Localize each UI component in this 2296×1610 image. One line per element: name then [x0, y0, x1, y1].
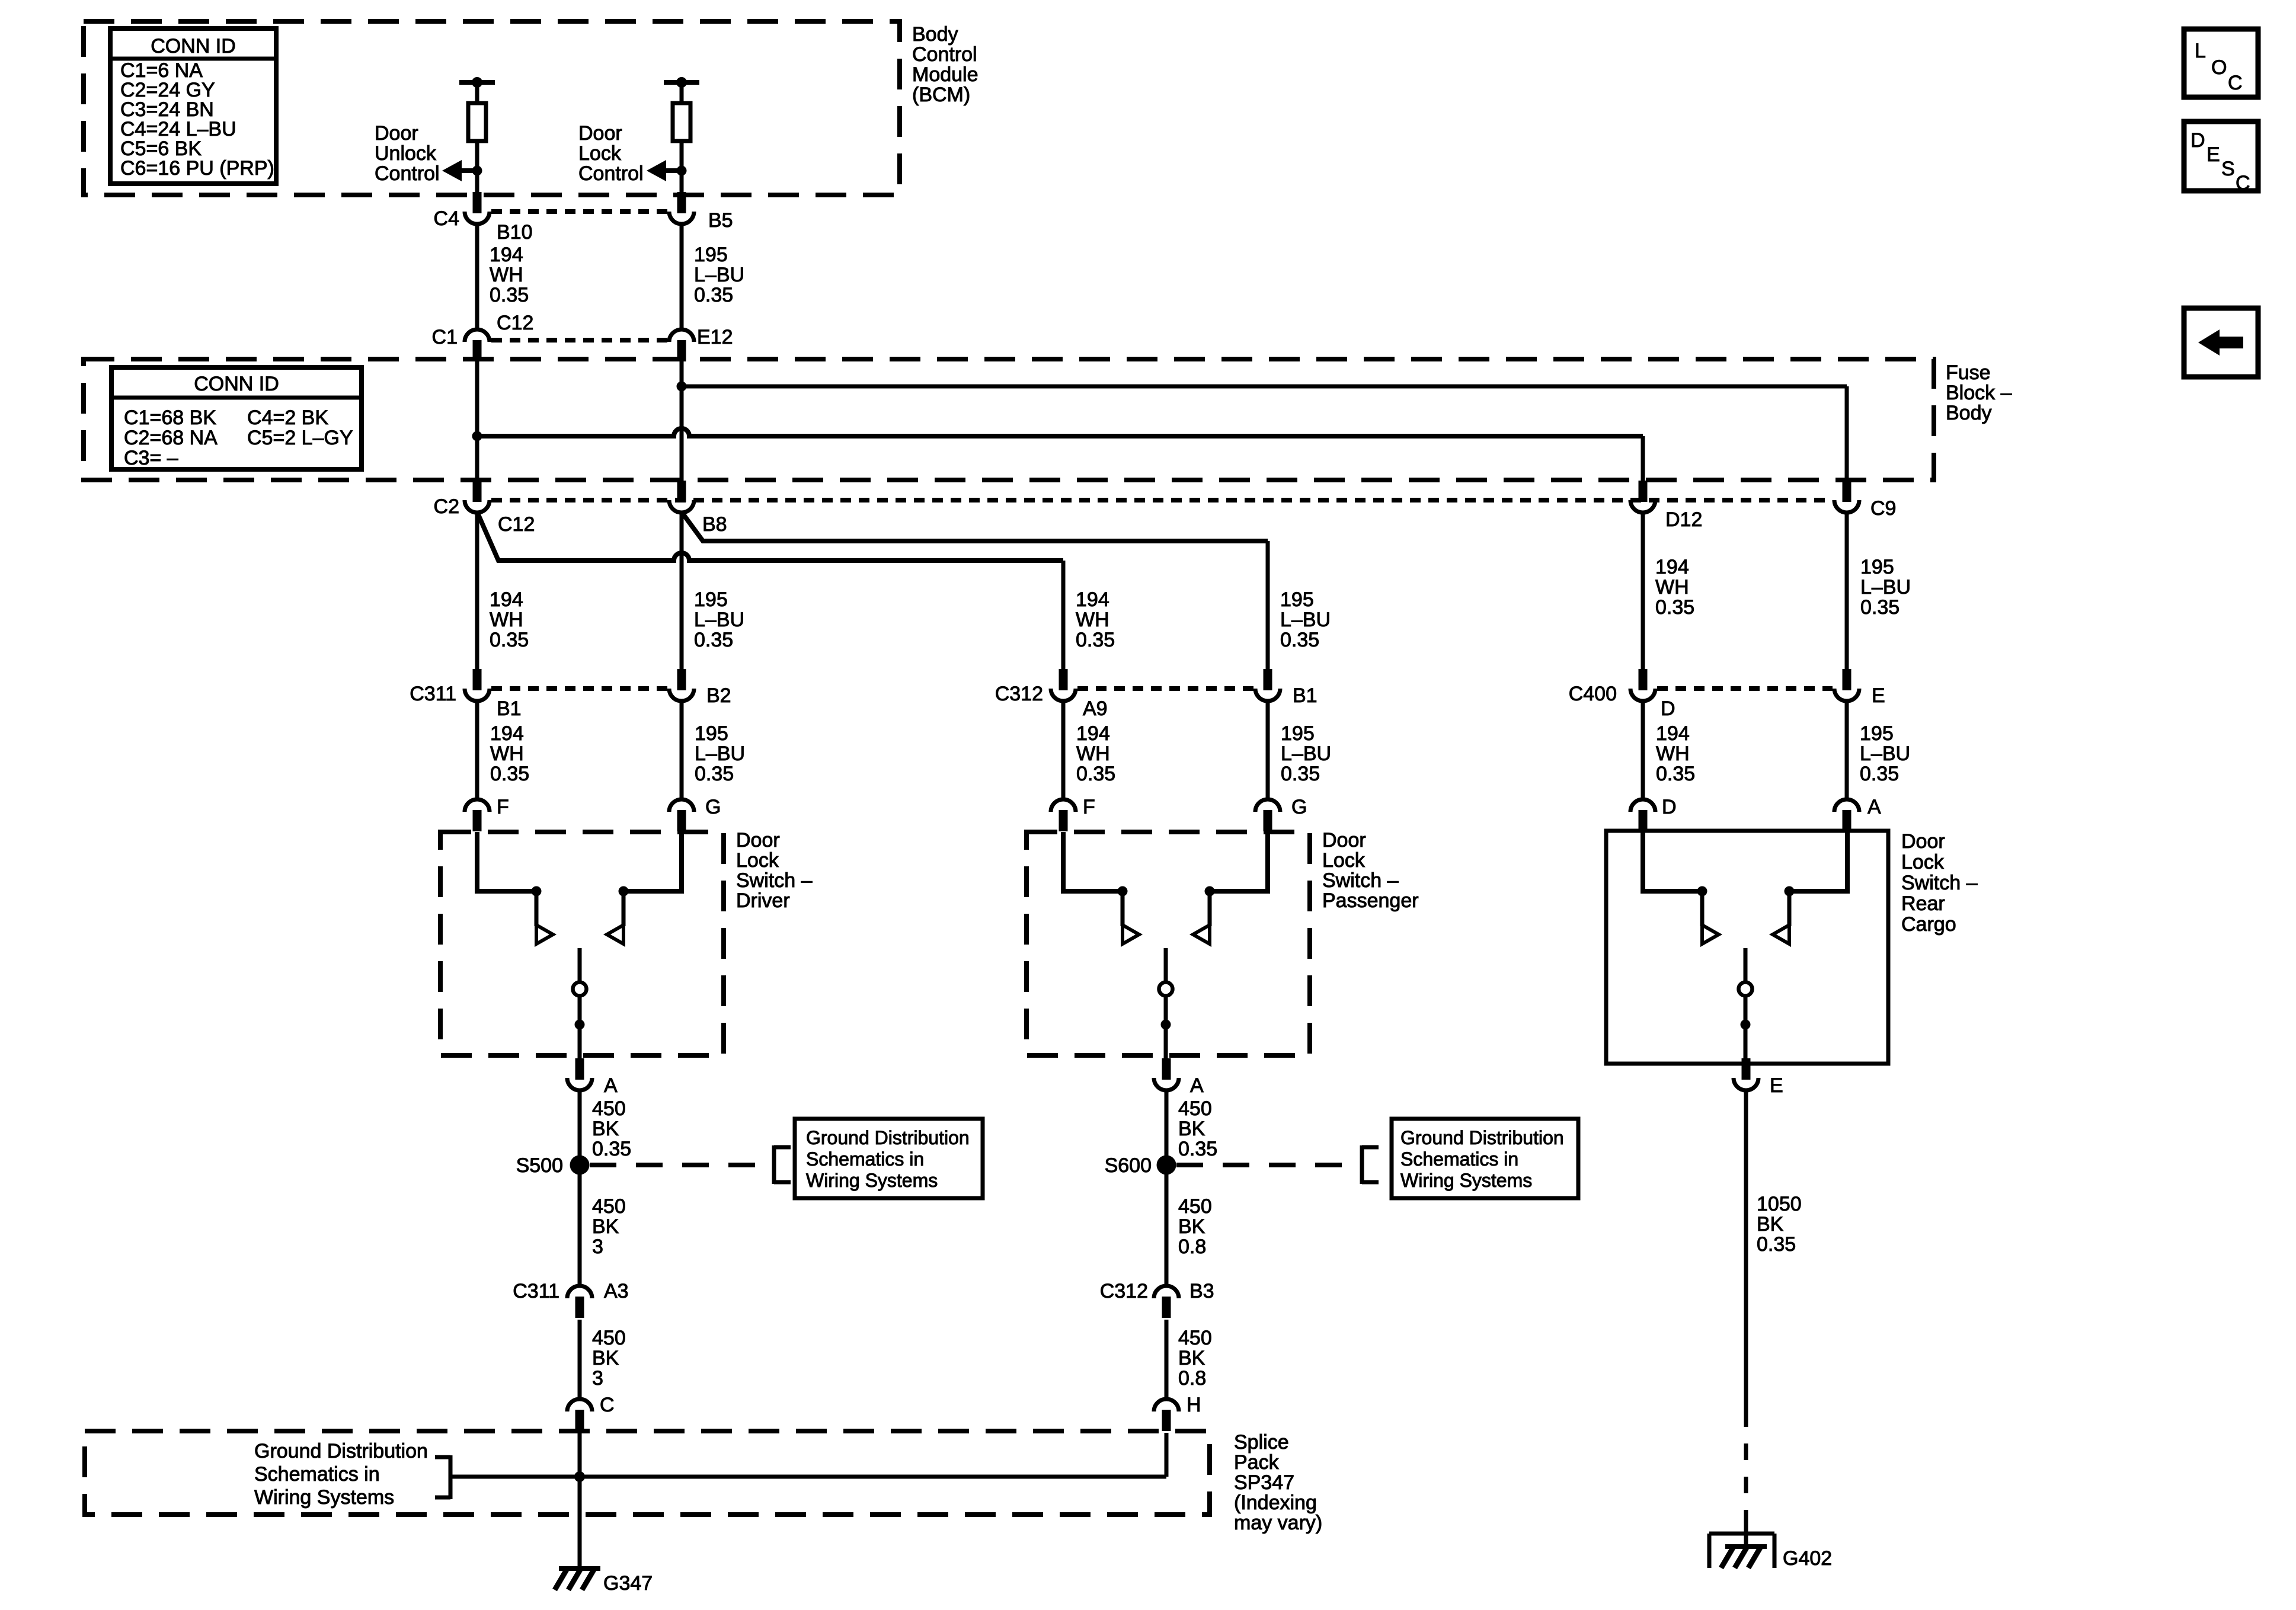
svg-text:0.35: 0.35: [1281, 763, 1320, 785]
svg-text:Unlock: Unlock: [375, 142, 437, 165]
svg-text:L–BU: L–BU: [694, 609, 744, 631]
svg-text:BK: BK: [592, 1347, 619, 1369]
svg-text:CONN ID: CONN ID: [151, 35, 236, 57]
svg-text:E: E: [2207, 143, 2220, 166]
svg-text:C311: C311: [513, 1280, 559, 1302]
svg-text:C: C: [2236, 172, 2250, 194]
svg-text:Pack: Pack: [1234, 1451, 1280, 1474]
svg-text:C2=68 NA: C2=68 NA: [124, 427, 218, 449]
svg-text:195: 195: [1281, 722, 1315, 745]
svg-text:Lock: Lock: [578, 142, 622, 165]
svg-text:A: A: [1868, 796, 1881, 818]
svg-text:Schematics in: Schematics in: [1400, 1148, 1518, 1170]
svg-text:Splice: Splice: [1234, 1431, 1289, 1454]
svg-text:A9: A9: [1083, 697, 1108, 720]
svg-text:C12: C12: [498, 513, 535, 536]
svg-text:D: D: [2191, 129, 2205, 152]
svg-text:WH: WH: [490, 742, 524, 765]
svg-text:WH: WH: [1655, 576, 1689, 598]
svg-text:Module: Module: [912, 63, 978, 86]
svg-text:Switch –: Switch –: [736, 869, 813, 892]
svg-text:Control: Control: [912, 43, 977, 66]
svg-text:WH: WH: [490, 264, 523, 286]
svg-text:195: 195: [1280, 588, 1314, 611]
svg-text:H: H: [1187, 1394, 1201, 1416]
svg-text:C9: C9: [1870, 497, 1896, 520]
svg-text:E: E: [1872, 684, 1885, 707]
svg-text:SP347: SP347: [1234, 1471, 1294, 1494]
svg-text:Wiring Systems: Wiring Systems: [1400, 1170, 1532, 1191]
svg-text:B8: B8: [702, 513, 727, 536]
svg-text:D: D: [1662, 796, 1677, 818]
svg-text:0.35: 0.35: [1178, 1138, 1217, 1160]
svg-text:B1: B1: [497, 697, 522, 720]
svg-text:(Indexing: (Indexing: [1234, 1491, 1317, 1514]
svg-text:O: O: [2211, 56, 2227, 79]
svg-text:S: S: [2221, 158, 2235, 180]
svg-text:C5=2 L–GY: C5=2 L–GY: [247, 427, 353, 449]
svg-text:0.35: 0.35: [490, 763, 529, 785]
svg-text:0.35: 0.35: [694, 284, 733, 306]
svg-text:Body: Body: [1946, 402, 1992, 424]
svg-text:Ground Distribution: Ground Distribution: [806, 1127, 970, 1148]
svg-text:S500: S500: [516, 1154, 563, 1177]
svg-text:C12: C12: [497, 312, 533, 334]
svg-text:Schematics in: Schematics in: [254, 1463, 380, 1486]
svg-text:B2: B2: [706, 684, 731, 707]
svg-text:Ground Distribution: Ground Distribution: [254, 1440, 428, 1462]
svg-text:450: 450: [1178, 1195, 1212, 1218]
svg-text:194: 194: [1655, 556, 1689, 578]
svg-text:L–BU: L–BU: [1860, 576, 1911, 598]
svg-text:0.35: 0.35: [695, 763, 734, 785]
svg-text:C4: C4: [434, 207, 459, 230]
svg-text:L–BU: L–BU: [1280, 609, 1331, 631]
svg-text:B3: B3: [1189, 1280, 1214, 1302]
svg-text:B1: B1: [1293, 684, 1318, 707]
svg-text:195: 195: [1860, 722, 1894, 745]
svg-text:G347: G347: [603, 1572, 653, 1595]
svg-text:L–BU: L–BU: [694, 264, 744, 286]
svg-text:194: 194: [490, 722, 524, 745]
svg-text:0.35: 0.35: [1280, 629, 1319, 651]
svg-text:0.35: 0.35: [1655, 596, 1694, 619]
svg-text:194: 194: [1656, 722, 1690, 745]
svg-text:(BCM): (BCM): [912, 84, 970, 106]
svg-text:0.35: 0.35: [1076, 763, 1115, 785]
svg-text:BK: BK: [1178, 1118, 1205, 1140]
svg-text:C312: C312: [1100, 1280, 1148, 1302]
svg-text:Door: Door: [375, 122, 418, 145]
svg-text:450: 450: [592, 1327, 626, 1349]
svg-text:may vary): may vary): [1234, 1512, 1322, 1534]
svg-text:Control: Control: [375, 162, 440, 185]
svg-text:0.35: 0.35: [1860, 763, 1899, 785]
svg-text:Wiring Systems: Wiring Systems: [806, 1170, 938, 1191]
svg-text:195: 195: [695, 722, 728, 745]
svg-text:0.35: 0.35: [490, 629, 529, 651]
svg-text:E: E: [1770, 1074, 1783, 1097]
svg-text:450: 450: [592, 1097, 626, 1120]
svg-text:L–BU: L–BU: [1860, 742, 1910, 765]
svg-text:0.35: 0.35: [1860, 596, 1900, 619]
svg-text:BK: BK: [1178, 1347, 1205, 1369]
svg-text:0.35: 0.35: [592, 1138, 631, 1160]
svg-text:A3: A3: [604, 1280, 629, 1302]
svg-text:195: 195: [694, 588, 728, 611]
svg-text:Driver: Driver: [736, 889, 790, 912]
svg-text:B10: B10: [497, 221, 533, 244]
svg-text:G: G: [1291, 796, 1307, 818]
svg-text:C: C: [600, 1394, 615, 1416]
svg-text:0.35: 0.35: [490, 284, 529, 306]
svg-text:450: 450: [592, 1195, 626, 1218]
svg-text:CONN ID: CONN ID: [194, 373, 279, 395]
svg-text:S600: S600: [1105, 1154, 1152, 1177]
svg-text:WH: WH: [1656, 742, 1690, 765]
svg-text:Body: Body: [912, 23, 958, 46]
svg-text:B5: B5: [708, 209, 733, 232]
svg-text:Switch –: Switch –: [1901, 872, 1978, 894]
svg-text:3: 3: [592, 1235, 603, 1258]
svg-text:WH: WH: [1076, 609, 1109, 631]
svg-text:C1: C1: [432, 326, 458, 348]
svg-text:L: L: [2195, 40, 2206, 62]
svg-text:Lock: Lock: [1322, 849, 1366, 872]
svg-text:3: 3: [592, 1367, 603, 1390]
svg-text:Passenger: Passenger: [1322, 889, 1419, 912]
svg-text:194: 194: [490, 244, 523, 266]
svg-text:Ground Distribution: Ground Distribution: [1400, 1127, 1564, 1148]
svg-text:Switch –: Switch –: [1322, 869, 1399, 892]
svg-text:C3= –: C3= –: [124, 447, 178, 469]
svg-text:Door: Door: [1901, 830, 1945, 853]
svg-text:BK: BK: [1757, 1213, 1784, 1235]
svg-text:450: 450: [1178, 1097, 1212, 1120]
svg-text:Cargo: Cargo: [1901, 913, 1956, 936]
svg-text:BK: BK: [1178, 1215, 1205, 1238]
svg-text:D: D: [1661, 697, 1675, 720]
svg-text:194: 194: [490, 588, 523, 611]
svg-text:Rear: Rear: [1901, 892, 1945, 915]
svg-text:WH: WH: [490, 609, 523, 631]
svg-text:450: 450: [1178, 1327, 1212, 1349]
svg-text:Fuse: Fuse: [1946, 361, 1991, 384]
svg-text:1050: 1050: [1757, 1193, 1802, 1215]
svg-text:Control: Control: [578, 162, 644, 185]
svg-text:BK: BK: [592, 1118, 619, 1140]
svg-text:0.35: 0.35: [1757, 1233, 1796, 1256]
svg-text:G402: G402: [1783, 1547, 1832, 1570]
svg-text:Block –: Block –: [1946, 382, 2012, 404]
svg-text:0.8: 0.8: [1178, 1367, 1206, 1390]
svg-text:Lock: Lock: [736, 849, 779, 872]
svg-text:Wiring Systems: Wiring Systems: [254, 1486, 394, 1509]
svg-text:194: 194: [1076, 722, 1110, 745]
svg-text:C311: C311: [410, 683, 456, 705]
svg-text:Lock: Lock: [1901, 851, 1945, 873]
svg-text:C312: C312: [995, 683, 1043, 705]
svg-text:Door: Door: [736, 829, 780, 852]
svg-text:A: A: [604, 1074, 618, 1097]
svg-text:Door: Door: [578, 122, 622, 145]
svg-text:C6=16 PU (PRP): C6=16 PU (PRP): [120, 157, 274, 180]
svg-text:E12: E12: [697, 326, 733, 348]
svg-text:C2: C2: [434, 495, 459, 518]
svg-text:A: A: [1190, 1074, 1204, 1097]
svg-text:L–BU: L–BU: [695, 742, 745, 765]
svg-text:F: F: [497, 796, 509, 818]
svg-text:F: F: [1083, 796, 1095, 818]
svg-text:C400: C400: [1569, 683, 1617, 705]
svg-text:L–BU: L–BU: [1281, 742, 1331, 765]
svg-text:0.35: 0.35: [1076, 629, 1115, 651]
svg-text:D12: D12: [1665, 508, 1702, 531]
svg-text:C1=68 BK: C1=68 BK: [124, 406, 216, 429]
svg-text:0.8: 0.8: [1178, 1235, 1206, 1258]
svg-text:195: 195: [694, 244, 728, 266]
svg-text:195: 195: [1860, 556, 1894, 578]
svg-text:0.35: 0.35: [694, 629, 733, 651]
svg-text:BK: BK: [592, 1215, 619, 1238]
svg-text:Door: Door: [1322, 829, 1366, 852]
svg-text:G: G: [705, 796, 721, 818]
svg-text:WH: WH: [1076, 742, 1110, 765]
svg-text:C: C: [2228, 72, 2243, 94]
svg-text:C4=2 BK: C4=2 BK: [247, 406, 328, 429]
svg-text:194: 194: [1076, 588, 1109, 611]
svg-text:0.35: 0.35: [1656, 763, 1695, 785]
svg-text:Schematics in: Schematics in: [806, 1148, 924, 1170]
